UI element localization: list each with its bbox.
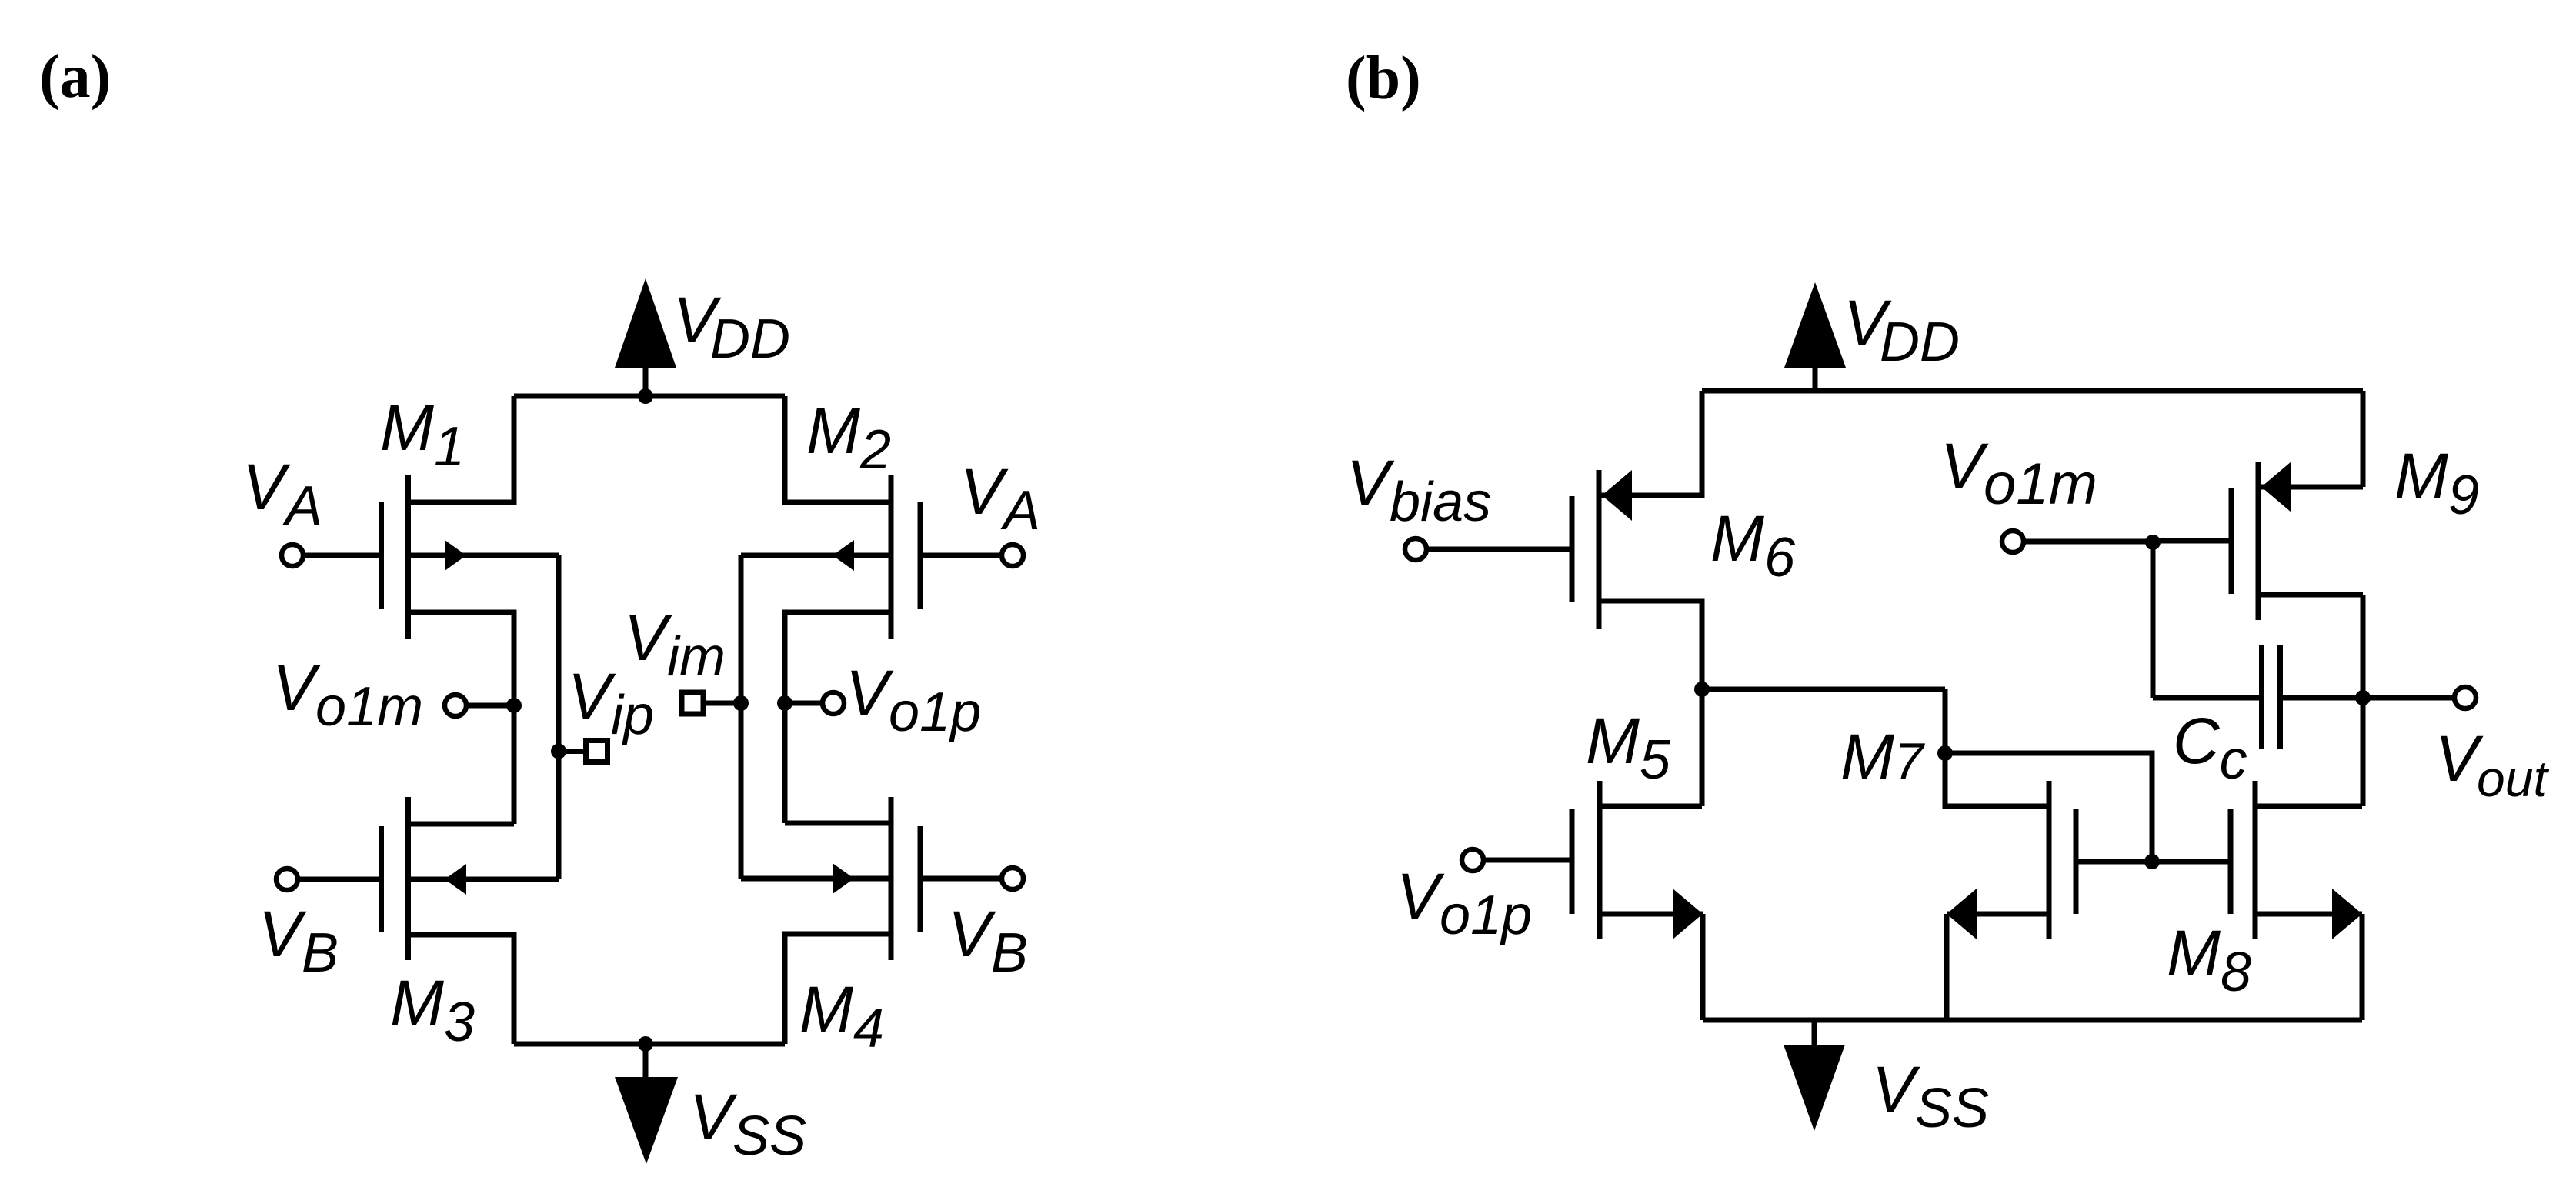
svg-text:(b): (b) [1346,45,1421,112]
svg-text:(a): (a) [39,43,111,111]
svg-text:M7: M7 [1840,721,1925,793]
